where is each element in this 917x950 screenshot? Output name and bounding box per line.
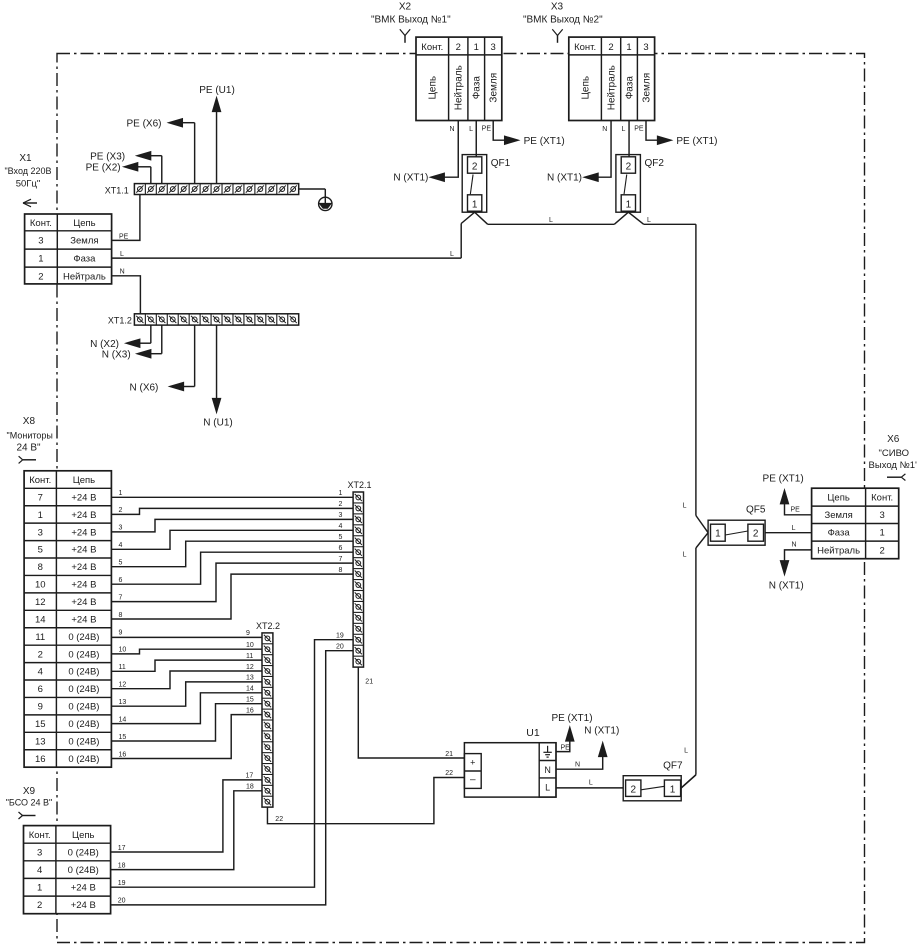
- svg-text:X9: X9: [23, 786, 36, 797]
- svg-text:24 В": 24 В": [16, 443, 41, 454]
- svg-text:X8: X8: [23, 416, 36, 427]
- svg-text:N (XT1): N (XT1): [769, 580, 804, 591]
- svg-text:Фаза: Фаза: [624, 76, 635, 100]
- svg-text:Земля: Земля: [824, 510, 852, 521]
- svg-text:2: 2: [630, 784, 636, 795]
- svg-text:13: 13: [246, 675, 254, 682]
- svg-text:X1: X1: [19, 153, 32, 164]
- svg-text:12: 12: [246, 664, 254, 671]
- svg-text:N (XT1): N (XT1): [393, 173, 428, 184]
- svg-text:QF2: QF2: [645, 158, 665, 169]
- svg-text:3: 3: [643, 42, 648, 53]
- svg-text:4: 4: [38, 667, 43, 678]
- svg-text:12: 12: [35, 597, 46, 608]
- svg-text:8: 8: [38, 562, 43, 573]
- svg-text:2: 2: [626, 161, 632, 172]
- svg-text:17: 17: [118, 845, 126, 852]
- svg-text:0 (24В): 0 (24В): [68, 684, 99, 695]
- svg-text:3: 3: [491, 42, 496, 53]
- svg-text:4: 4: [339, 523, 343, 530]
- svg-text:PE: PE: [561, 745, 571, 752]
- svg-text:PE: PE: [482, 126, 492, 133]
- svg-text:+24 В: +24 В: [71, 597, 96, 608]
- svg-text:1: 1: [715, 528, 721, 539]
- svg-text:L: L: [792, 525, 796, 532]
- svg-text:5: 5: [38, 545, 43, 556]
- svg-text:Нейтраль: Нейтраль: [63, 271, 106, 282]
- svg-text:4: 4: [119, 542, 123, 549]
- svg-text:U1: U1: [526, 727, 540, 739]
- svg-text:10: 10: [35, 580, 46, 591]
- svg-text:11: 11: [246, 653, 253, 660]
- svg-text:Конт.: Конт.: [29, 475, 51, 486]
- svg-text:1: 1: [119, 490, 123, 497]
- svg-text:L: L: [683, 502, 687, 509]
- svg-text:22: 22: [275, 816, 283, 823]
- svg-text:1: 1: [626, 199, 632, 210]
- svg-text:2: 2: [753, 528, 759, 539]
- svg-text:20: 20: [118, 898, 126, 905]
- svg-text:16: 16: [35, 754, 46, 765]
- svg-text:7: 7: [38, 492, 43, 503]
- svg-text:9: 9: [119, 629, 123, 636]
- svg-text:2: 2: [608, 42, 613, 53]
- svg-text:Конт.: Конт.: [421, 42, 443, 53]
- svg-text:0 (24В): 0 (24В): [68, 632, 99, 643]
- svg-text:PE (XT1): PE (XT1): [763, 474, 804, 485]
- svg-text:+24 В: +24 В: [71, 527, 96, 538]
- svg-text:Цепь: Цепь: [581, 76, 592, 100]
- svg-text:PE (XT1): PE (XT1): [551, 713, 592, 724]
- svg-text:Фаза: Фаза: [472, 76, 483, 100]
- svg-text:L: L: [683, 552, 687, 559]
- svg-text:21: 21: [365, 678, 373, 685]
- svg-text:Цепь: Цепь: [72, 830, 94, 841]
- svg-text:2: 2: [456, 42, 461, 53]
- svg-text:8: 8: [119, 612, 123, 619]
- svg-text:14: 14: [35, 614, 46, 625]
- svg-text:L: L: [545, 783, 550, 793]
- svg-text:0 (24В): 0 (24В): [68, 865, 99, 876]
- svg-text:N: N: [120, 269, 125, 276]
- svg-text:1: 1: [38, 254, 43, 265]
- svg-text:N (X3): N (X3): [102, 350, 131, 361]
- svg-text:9: 9: [38, 702, 43, 713]
- svg-text:18: 18: [246, 783, 254, 790]
- svg-text:Земля: Земля: [641, 73, 652, 103]
- svg-text:N: N: [575, 762, 580, 769]
- svg-text:3: 3: [339, 512, 343, 519]
- svg-text:2: 2: [37, 900, 42, 911]
- svg-text:3: 3: [38, 527, 43, 538]
- svg-text:XT1.1: XT1.1: [105, 185, 129, 195]
- svg-text:50Гц": 50Гц": [16, 179, 41, 190]
- svg-text:1: 1: [670, 784, 676, 795]
- svg-text:0 (24В): 0 (24В): [68, 847, 99, 858]
- svg-text:3: 3: [38, 236, 43, 247]
- svg-text:PE (XT1): PE (XT1): [676, 136, 717, 147]
- svg-text:Нейтраль: Нейтраль: [454, 65, 465, 110]
- svg-text:0 (24В): 0 (24В): [68, 736, 99, 747]
- svg-text:QF1: QF1: [491, 158, 511, 169]
- svg-text:Конт.: Конт.: [871, 493, 893, 504]
- svg-text:Земля: Земля: [489, 73, 500, 103]
- svg-text:Нейтраль: Нейтраль: [817, 545, 860, 556]
- svg-text:1: 1: [880, 528, 885, 539]
- svg-text:16: 16: [119, 751, 127, 758]
- svg-text:9: 9: [246, 630, 250, 637]
- svg-text:L: L: [469, 126, 473, 133]
- svg-text:17: 17: [246, 773, 254, 780]
- svg-text:Нейтраль: Нейтраль: [606, 65, 617, 110]
- svg-text:+24 В: +24 В: [71, 900, 96, 911]
- svg-text:"ВМК Выход №1": "ВМК Выход №1": [371, 15, 451, 26]
- svg-text:PE (X2): PE (X2): [86, 163, 121, 174]
- svg-text:"ВМК Выход №2": "ВМК Выход №2": [523, 15, 603, 26]
- svg-text:N (XT1): N (XT1): [547, 173, 582, 184]
- svg-text:8: 8: [339, 567, 343, 574]
- svg-text:21: 21: [445, 751, 453, 758]
- svg-text:11: 11: [119, 664, 126, 671]
- svg-text:3: 3: [880, 510, 885, 521]
- svg-text:15: 15: [119, 734, 127, 741]
- svg-text:0 (24В): 0 (24В): [68, 702, 99, 713]
- svg-text:18: 18: [118, 862, 126, 869]
- svg-text:0 (24В): 0 (24В): [68, 754, 99, 765]
- svg-text:L: L: [549, 217, 553, 224]
- svg-text:L: L: [647, 217, 651, 224]
- svg-text:2: 2: [339, 501, 343, 508]
- svg-text:"Мониторы: "Мониторы: [7, 431, 53, 441]
- svg-text:1: 1: [37, 883, 42, 894]
- svg-text:5: 5: [119, 560, 123, 567]
- svg-text:N (X6): N (X6): [129, 382, 158, 393]
- svg-text:6: 6: [339, 545, 343, 552]
- svg-text:"СИВО: "СИВО: [879, 448, 909, 459]
- svg-text:2: 2: [880, 545, 885, 556]
- svg-text:PE: PE: [119, 233, 129, 240]
- svg-text:"Вход 220В: "Вход 220В: [4, 166, 51, 176]
- svg-text:1: 1: [38, 510, 43, 521]
- svg-text:+24 В: +24 В: [71, 492, 96, 503]
- svg-text:PE (X3): PE (X3): [90, 152, 125, 163]
- svg-text:14: 14: [246, 686, 254, 693]
- svg-text:1: 1: [472, 199, 478, 210]
- svg-text:"БСО 24 В": "БСО 24 В": [6, 798, 53, 808]
- svg-text:10: 10: [119, 647, 127, 654]
- svg-text:Цепь: Цепь: [428, 76, 439, 100]
- svg-text:1: 1: [339, 490, 343, 497]
- svg-text:X6: X6: [887, 434, 900, 445]
- svg-text:19: 19: [336, 632, 344, 639]
- svg-text:N (XT1): N (XT1): [584, 726, 619, 737]
- svg-text:13: 13: [35, 736, 46, 747]
- svg-text:16: 16: [246, 707, 254, 714]
- svg-text:L: L: [684, 747, 688, 754]
- svg-text:PE (XT1): PE (XT1): [524, 136, 565, 147]
- svg-text:+24 В: +24 В: [71, 510, 96, 521]
- svg-text:20: 20: [336, 643, 344, 650]
- svg-text:1: 1: [626, 42, 631, 53]
- svg-text:+24 В: +24 В: [71, 545, 96, 556]
- svg-text:2: 2: [38, 271, 43, 282]
- svg-text:N: N: [792, 542, 797, 549]
- svg-text:3: 3: [119, 525, 123, 532]
- svg-text:5: 5: [339, 534, 343, 541]
- svg-text:L: L: [450, 251, 454, 258]
- svg-text:19: 19: [118, 880, 126, 887]
- svg-text:XT2.2: XT2.2: [256, 621, 280, 631]
- svg-text:2: 2: [38, 649, 43, 660]
- svg-text:N: N: [544, 765, 551, 775]
- svg-text:6: 6: [38, 684, 43, 695]
- svg-text:L: L: [120, 251, 124, 258]
- svg-text:14: 14: [119, 716, 127, 723]
- svg-text:13: 13: [119, 699, 127, 706]
- svg-text:2: 2: [119, 507, 123, 514]
- svg-text:Цепь: Цепь: [73, 475, 95, 486]
- svg-text:PE: PE: [791, 506, 801, 513]
- svg-text:Выход №1": Выход №1": [869, 460, 917, 471]
- svg-text:15: 15: [35, 719, 46, 730]
- svg-text:QF7: QF7: [663, 761, 683, 772]
- svg-text:XT2.1: XT2.1: [347, 480, 371, 490]
- svg-text:6: 6: [119, 577, 123, 584]
- svg-text:+: +: [470, 757, 475, 767]
- svg-text:X3: X3: [551, 2, 564, 13]
- svg-text:N (X2): N (X2): [90, 339, 119, 350]
- svg-text:12: 12: [119, 682, 127, 689]
- svg-text:3: 3: [37, 847, 42, 858]
- svg-text:PE (X6): PE (X6): [126, 119, 161, 130]
- svg-text:11: 11: [35, 632, 45, 643]
- svg-text:0 (24В): 0 (24В): [68, 649, 99, 660]
- svg-text:+24 В: +24 В: [71, 580, 96, 591]
- svg-text:2: 2: [472, 161, 478, 172]
- svg-text:+24 В: +24 В: [71, 883, 96, 894]
- svg-text:XT1.2: XT1.2: [108, 315, 132, 325]
- svg-text:Земля: Земля: [70, 236, 98, 247]
- svg-text:+24 В: +24 В: [71, 562, 96, 573]
- svg-text:Конт.: Конт.: [30, 218, 52, 229]
- svg-text:–: –: [470, 775, 476, 786]
- svg-text:0 (24В): 0 (24В): [68, 667, 99, 678]
- svg-text:N: N: [602, 126, 607, 133]
- svg-text:22: 22: [445, 770, 453, 777]
- svg-text:Фаза: Фаза: [828, 528, 851, 539]
- svg-text:7: 7: [119, 594, 123, 601]
- svg-text:+24 В: +24 В: [71, 614, 96, 625]
- svg-text:1: 1: [474, 42, 479, 53]
- svg-text:Цепь: Цепь: [827, 493, 849, 504]
- svg-text:L: L: [589, 780, 593, 787]
- svg-text:Фаза: Фаза: [73, 254, 96, 265]
- svg-text:QF5: QF5: [746, 504, 766, 515]
- svg-text:7: 7: [339, 556, 343, 563]
- svg-text:15: 15: [246, 697, 254, 704]
- svg-text:PE: PE: [634, 126, 644, 133]
- svg-text:N: N: [449, 126, 454, 133]
- svg-text:PE (U1): PE (U1): [199, 85, 235, 96]
- svg-text:4: 4: [37, 865, 42, 876]
- svg-text:Цепь: Цепь: [73, 218, 95, 229]
- svg-text:Конт.: Конт.: [574, 42, 596, 53]
- svg-text:Конт.: Конт.: [29, 830, 51, 841]
- svg-text:X2: X2: [399, 2, 412, 13]
- svg-text:L: L: [621, 126, 625, 133]
- svg-text:10: 10: [246, 642, 254, 649]
- svg-text:0 (24В): 0 (24В): [68, 719, 99, 730]
- svg-text:N (U1): N (U1): [203, 418, 232, 429]
